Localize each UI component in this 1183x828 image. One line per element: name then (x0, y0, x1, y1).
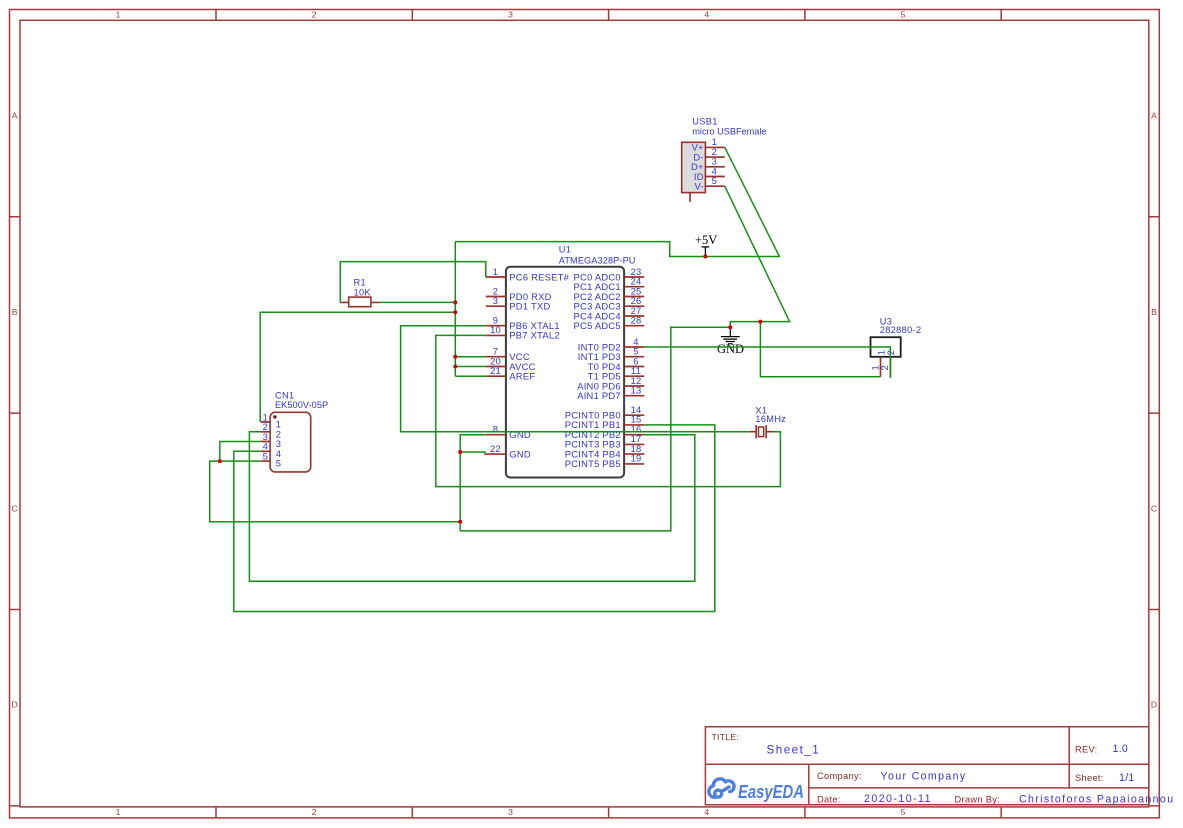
wire: VCC pin7 (455, 356, 486, 358)
svg-text:10K: 10K (354, 287, 372, 297)
svg-text:D: D (1151, 700, 1157, 710)
U1 right pin names (565, 271, 621, 469)
wire: USB V- diagonal to GND (725, 186, 790, 327)
junction GND/U3 branch (758, 320, 762, 324)
GND ground symbol (717, 327, 744, 356)
junction U1 pin8/pin22 (458, 450, 462, 454)
svg-text:PCINT5 PB5: PCINT5 PB5 (565, 458, 621, 469)
wire: GND run left and down (460, 327, 730, 531)
junction GND main (458, 520, 462, 524)
svg-text:PD1 TXD: PD1 TXD (509, 301, 550, 312)
wire: R1 right to +5V vertical (380, 301, 456, 303)
junction CN1 pin3/pin5 (218, 459, 222, 463)
svg-text:1/1: 1/1 (1119, 772, 1135, 784)
connector CN1 EK500V-05P (261, 391, 329, 472)
svg-text:2: 2 (312, 9, 317, 19)
wire: GND to CN1 pin5 (210, 461, 461, 522)
svg-text:2: 2 (879, 365, 890, 370)
U1 left pins (486, 277, 506, 454)
svg-text:REV:: REV: (1075, 745, 1098, 755)
svg-text:B: B (1151, 307, 1157, 317)
svg-text:EasyEDA: EasyEDA (738, 782, 804, 802)
wire: GND vertical to U1 pin8 (460, 435, 486, 531)
svg-text:21: 21 (490, 365, 501, 376)
crystal X1 16MHz (749, 406, 786, 439)
svg-text:C: C (11, 503, 17, 513)
svg-text:28: 28 (631, 315, 642, 326)
svg-text:V-: V- (694, 181, 703, 192)
svg-text:GND: GND (509, 429, 531, 440)
junction R1/+5V (453, 300, 457, 304)
svg-text:USB1: USB1 (692, 117, 717, 127)
svg-text:5: 5 (276, 458, 281, 469)
wire: GND branch to U3 pin1 (760, 322, 880, 377)
svg-text:1: 1 (493, 266, 498, 277)
svg-text:8: 8 (493, 424, 498, 435)
svg-text:5: 5 (712, 175, 717, 186)
svg-text:2: 2 (312, 807, 317, 817)
wire: CN1 pin3 branch (220, 442, 261, 462)
wire: U1 pin1 RESET to R1 left (340, 262, 486, 303)
U1 right pin numbers (631, 266, 642, 464)
wire: X1 right to U1 pin10 XTAL2 (436, 335, 781, 486)
svg-text:ATMEGA328P-PU: ATMEGA328P-PU (559, 255, 636, 265)
wire: U1 pin4 INT0 to U3 pin2 (644, 347, 890, 378)
resistor R1 (340, 278, 379, 307)
title block (705, 727, 1173, 806)
+5V power symbol (695, 233, 717, 257)
svg-text:D: D (11, 700, 17, 710)
svg-text:1.0: 1.0 (1113, 743, 1129, 755)
svg-text:A: A (12, 111, 18, 121)
svg-text:3: 3 (493, 295, 498, 306)
U1 right pins (624, 277, 644, 464)
wire: +5V top rail to USB V+ (455, 147, 779, 256)
svg-text:2020-10-11: 2020-10-11 (864, 793, 931, 805)
svg-text:5: 5 (263, 451, 268, 462)
junction VCC (453, 355, 457, 359)
svg-text:TITLE:: TITLE: (712, 732, 740, 742)
svg-text:3: 3 (508, 9, 513, 19)
svg-text:3: 3 (508, 807, 513, 817)
svg-text:AIN1 PD7: AIN1 PD7 (577, 390, 621, 401)
svg-text:1: 1 (116, 807, 121, 817)
svg-text:5: 5 (901, 807, 906, 817)
svg-text:Date:: Date: (817, 794, 841, 804)
svg-text:1: 1 (116, 9, 121, 19)
svg-text:10: 10 (490, 324, 501, 335)
svg-text:R1: R1 (354, 278, 366, 288)
svg-text:GND: GND (509, 448, 531, 459)
wire: U1 pin16 PB2 to CN1 pin2 (249, 432, 694, 581)
junction +5V symbol (703, 255, 707, 259)
svg-text:U1: U1 (559, 244, 571, 254)
svg-text:Your Company: Your Company (881, 771, 966, 783)
wire: U1 pin9 XTAL1 to X1 left (401, 326, 749, 432)
svg-text:4: 4 (704, 807, 709, 817)
svg-text:micro USBFemale: micro USBFemale (692, 126, 767, 136)
wire: CN1 pin1 to +5V (260, 312, 455, 422)
component U3 282880-2 (869, 316, 921, 376)
svg-text:19: 19 (631, 453, 642, 464)
wire: +5V vertical rail (454, 242, 456, 377)
svg-text:PB7 XTAL2: PB7 XTAL2 (509, 330, 560, 341)
svg-text:B: B (12, 307, 18, 317)
svg-text:PC6 RESET#: PC6 RESET# (509, 271, 569, 282)
junction GND symbol (728, 325, 732, 329)
svg-text:Christoforos Papaioannou: Christoforos Papaioannou (1019, 794, 1173, 806)
svg-text:282880-2: 282880-2 (880, 325, 922, 335)
wire: AREF pin21 (455, 375, 486, 377)
junction AVCC (453, 365, 457, 369)
svg-text:EK500V-05P: EK500V-05P (275, 400, 329, 410)
wire: U1 pin15 PB1 to CN1 pin4 (234, 425, 715, 612)
junction CN1 pin1/+5V (453, 310, 457, 314)
junction dots (218, 255, 763, 524)
U1 left pin names (509, 271, 569, 459)
svg-text:5: 5 (901, 9, 906, 19)
svg-text:AREF: AREF (509, 371, 535, 382)
svg-text:Sheet:: Sheet: (1075, 773, 1104, 783)
wire: AVCC pin20 (455, 366, 486, 368)
IC U1 ATMEGA328P-PU (486, 244, 644, 477)
svg-text:A: A (1151, 111, 1157, 121)
connector USB1 micro USBFemale (682, 117, 767, 202)
svg-text:Drawn By:: Drawn By: (955, 794, 1001, 804)
svg-text:PC5 ADC5: PC5 ADC5 (574, 320, 621, 331)
svg-text:C: C (1151, 503, 1157, 513)
svg-text:+5V: +5V (695, 233, 717, 247)
svg-text:22: 22 (490, 443, 501, 454)
U1 left pin numbers (490, 266, 501, 454)
svg-text:GND: GND (717, 342, 744, 356)
svg-text:Company:: Company: (817, 771, 862, 781)
EasyEDA logo (709, 779, 734, 798)
wire: U1 pin22 GND jog (460, 452, 486, 454)
svg-text:4: 4 (704, 9, 709, 19)
svg-text:13: 13 (631, 385, 642, 396)
svg-text:16MHz: 16MHz (755, 414, 786, 424)
